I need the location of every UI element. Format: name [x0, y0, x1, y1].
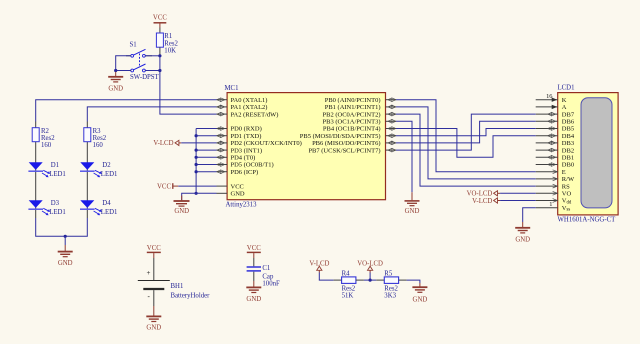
node: PD1 junction — [195, 134, 198, 137]
svg-text:MC1: MC1 — [225, 85, 239, 92]
wire: chain2 pins vertical — [86, 122, 88, 219]
pin Vdd — [536, 198, 572, 206]
resistor R3 — [84, 128, 107, 149]
led D4 — [80, 200, 117, 216]
pin DB5 — [536, 126, 574, 133]
svg-text:LED1: LED1 — [49, 171, 66, 178]
svg-text:3K3: 3K3 — [384, 292, 396, 299]
port V-LCD (to LCD Vdd) — [472, 198, 536, 205]
svg-text:Res2: Res2 — [164, 40, 178, 47]
pin C1.2 — [253, 272, 255, 281]
svg-text:PD0 (RXD): PD0 (RXD) — [231, 126, 262, 133]
pin DB1 — [536, 155, 574, 162]
svg-text:VCC: VCC — [157, 183, 171, 190]
wire: VCC port to MCU VCC pin — [178, 185, 216, 187]
mcu MC1 Attiny2313 — [225, 85, 386, 208]
svg-text:PB5 (MOSI/DI/SDA/PCINT5): PB5 (MOSI/DI/SDA/PCINT5) — [300, 133, 381, 140]
svg-text:DB5: DB5 — [562, 126, 574, 133]
wire: gnd bus vertical — [195, 129, 197, 194]
wire: PB1 to LCD R/W — [396, 107, 536, 179]
pin PB1 (AIN1/PCINT1) — [325, 104, 396, 111]
pin PB0 (AIN0/PCINT0) — [325, 97, 396, 104]
wire: S1 pole1 right to R1 bottom — [145, 55, 160, 57]
wire: PB4 to LCD DB4 — [396, 129, 536, 158]
pin PD5 (OC0B/T1) — [217, 162, 274, 169]
power VCC (top, feeds R1) — [153, 15, 167, 28]
ground (battery) — [146, 306, 161, 332]
svg-text:LED1: LED1 — [49, 209, 66, 216]
pin PD4 (T0) — [217, 155, 256, 162]
svg-text:PB1 (AIN1/PCINT1): PB1 (AIN1/PCINT1) — [325, 104, 381, 111]
svg-text:100nF: 100nF — [262, 281, 280, 288]
svg-text:16: 16 — [546, 93, 552, 100]
svg-text:GND: GND — [174, 208, 189, 215]
wire: PB2 to LCD RS — [396, 114, 536, 186]
svg-text:E: E — [562, 169, 566, 176]
wire: chain2 bottom — [65, 218, 87, 236]
wire: R4 to R5 — [364, 279, 376, 281]
wire: chain1 pins vertical — [35, 122, 37, 219]
wire: GND to MCU GND pin — [182, 193, 217, 200]
wire: chain1 to PA0 — [36, 100, 217, 122]
svg-text:BH1: BH1 — [171, 283, 184, 290]
pin PD2 (CKOUT/XCK/INT0) — [217, 140, 302, 147]
svg-text:BatteryHolder: BatteryHolder — [171, 292, 211, 299]
svg-text:DB3: DB3 — [562, 140, 574, 147]
svg-text:DB7: DB7 — [562, 111, 575, 118]
lcd glass area — [581, 98, 612, 208]
ground (left of MCU) — [174, 196, 190, 216]
wire: PD5 to gnd bus — [196, 164, 216, 166]
wire: PD1 to gnd bus — [196, 135, 216, 137]
led D2 — [80, 162, 117, 178]
node: PD4 junction — [195, 156, 198, 159]
led D1 — [28, 162, 65, 178]
resistor R5 — [384, 270, 398, 299]
wire: PB0 to LCD E — [396, 100, 536, 172]
pin K 16 — [536, 93, 567, 104]
svg-text:LED1: LED1 — [101, 209, 118, 216]
power VCC (C1) — [247, 245, 261, 258]
svg-text:WH1601A-NGG-CT: WH1601A-NGG-CT — [558, 216, 617, 223]
svg-text:VCC: VCC — [231, 183, 244, 190]
svg-text:PD5 (OC0B/T1): PD5 (OC0B/T1) — [231, 162, 274, 169]
switch S1 — [126, 42, 160, 81]
pin PB4 (OC1B/PCINT4) — [323, 126, 396, 133]
wire: S1 pole1 left to vertical — [116, 56, 131, 71]
svg-text:Res2: Res2 — [41, 135, 55, 142]
ground (below LCD) — [515, 222, 530, 243]
svg-text:S1: S1 — [130, 42, 137, 49]
pin C1.1 — [253, 258, 255, 266]
pin PD3 (INT1) — [217, 147, 263, 154]
svg-text:GND: GND — [515, 236, 530, 243]
svg-text:PD6 (ICP): PD6 (ICP) — [231, 169, 259, 176]
node: PD6 junction — [195, 170, 198, 173]
node: PD5 junction — [195, 163, 198, 166]
svg-text:LED1: LED1 — [101, 171, 118, 178]
battery BH1 — [138, 258, 210, 306]
power VCC (battery) — [147, 245, 161, 258]
svg-text:1: 1 — [549, 201, 552, 208]
svg-text:C1: C1 — [262, 265, 270, 272]
node: junction S1 left — [114, 69, 117, 72]
ground (divider) — [412, 283, 427, 303]
svg-text:PA2 (RESET/dW): PA2 (RESET/dW) — [231, 111, 279, 118]
pin PB6 (MISO/DO/PCINT6) — [312, 140, 396, 147]
svg-text:10K: 10K — [164, 48, 176, 55]
svg-text:PD3 (INT1): PD3 (INT1) — [231, 147, 263, 154]
ground (below PB3) — [405, 192, 420, 215]
wire: PD6 to gnd bus — [196, 171, 216, 173]
svg-text:D3: D3 — [51, 200, 60, 207]
wire: PD0 to gnd bus — [196, 128, 216, 130]
pin PB7 (UCSK/SCL/PCINT7) — [308, 147, 396, 154]
svg-text:VCC: VCC — [147, 245, 161, 252]
pin VO — [536, 191, 572, 198]
node: divider junction — [369, 279, 372, 282]
svg-text:GND: GND — [146, 325, 161, 332]
wire: reset net down to PA2 — [160, 56, 217, 114]
wire: PB5 to LCD DB5 — [396, 129, 536, 136]
svg-text:PB7 (UCSK/SCL/PCINT7): PB7 (UCSK/SCL/PCINT7) — [308, 147, 380, 154]
pin PD6 (ICP) — [217, 169, 259, 176]
svg-text:V-LCD: V-LCD — [472, 198, 492, 205]
wire: PB3 to GND — [396, 121, 412, 192]
node: junction S1 pole2 — [158, 69, 161, 72]
pin RS — [536, 183, 570, 190]
svg-text:PB2 (OC0A/PCINT2): PB2 (OC0A/PCINT2) — [323, 111, 381, 118]
svg-text:Attiny2313: Attiny2313 — [226, 202, 258, 209]
svg-text:DB6: DB6 — [562, 119, 575, 126]
svg-text:+: + — [147, 269, 151, 277]
svg-text:VCC: VCC — [247, 245, 261, 252]
pin PD1 (TXD) — [217, 133, 262, 140]
pin A — [536, 104, 567, 111]
led D3 — [28, 200, 65, 216]
pin DB6 — [536, 119, 575, 126]
node: GND wire junction — [195, 192, 198, 195]
svg-text:V-LCD: V-LCD — [153, 140, 173, 147]
wire: R5 to GND — [407, 280, 420, 283]
svg-text:PA0 (XTAL1): PA0 (XTAL1) — [231, 97, 268, 104]
wire: PD4 to gnd bus — [196, 156, 216, 158]
svg-text:DB2: DB2 — [562, 147, 574, 154]
svg-text:160: 160 — [93, 142, 104, 149]
node: LED gnd junction — [64, 235, 67, 238]
pin PB2 (OC0A/PCINT2) — [323, 111, 396, 118]
wire: PB6 to LCD DB6 — [396, 121, 536, 143]
svg-text:DB0: DB0 — [562, 162, 574, 169]
svg-text:PA1 (XTAL2): PA1 (XTAL2) — [231, 104, 268, 111]
svg-text:PB6 (MISO/DO/PCINT6): PB6 (MISO/DO/PCINT6) — [312, 140, 380, 147]
ground (C1) — [246, 281, 261, 303]
resistor R1 — [156, 33, 178, 55]
svg-text:A: A — [562, 104, 567, 111]
svg-text:Res2: Res2 — [93, 135, 107, 142]
pin PA0 (XTAL1) pin2 — [217, 97, 268, 104]
svg-text:PB3 (OC1A/PCINT3): PB3 (OC1A/PCINT3) — [323, 119, 381, 126]
node: junction R1/S1 — [158, 54, 161, 57]
wire: chain2 to PA1 — [87, 107, 216, 122]
svg-text:VO: VO — [562, 191, 572, 198]
svg-text:51K: 51K — [342, 292, 354, 299]
pin VCC — [217, 183, 244, 190]
port V-LCD (to PD2) — [153, 140, 216, 147]
port VO-LCD (divider tap) — [357, 260, 383, 280]
svg-text:GND: GND — [231, 191, 245, 198]
svg-text:GND: GND — [58, 260, 73, 267]
wire: chain1 bottom — [36, 218, 65, 236]
pin R4.1 — [334, 279, 342, 281]
svg-text:DB4: DB4 — [562, 133, 575, 140]
pin E — [536, 169, 566, 176]
pin DB2 — [536, 147, 574, 154]
svg-text:PD4 (T0): PD4 (T0) — [231, 155, 256, 162]
lcd LCD1 WH1601A-NGG-CT — [558, 85, 619, 224]
svg-text:GND: GND — [246, 296, 261, 303]
wire: PD3 to gnd bus — [196, 149, 216, 151]
ground (LED chains) — [58, 236, 73, 267]
resistor R2 — [32, 128, 55, 149]
svg-text:R/W: R/W — [562, 176, 575, 183]
node: PD3 junction — [195, 149, 198, 152]
ground (below S1) — [108, 72, 123, 93]
pin PA2 (RESET/dW) — [217, 111, 279, 118]
svg-text:PD2 (CKOUT/XCK/INT0): PD2 (CKOUT/XCK/INT0) — [231, 140, 302, 147]
svg-text:R5: R5 — [384, 270, 393, 277]
svg-text:VCC: VCC — [153, 15, 167, 22]
svg-text:SW-DPST: SW-DPST — [130, 74, 160, 81]
svg-text:PB4 (OC1B/PCINT4): PB4 (OC1B/PCINT4) — [323, 126, 381, 133]
svg-text:R4: R4 — [342, 270, 351, 277]
svg-text:GND: GND — [413, 296, 428, 303]
wire: S1 pole2 left to GND tap — [116, 71, 131, 72]
resistor R4 — [342, 270, 356, 299]
wire: PB7 to LCD DB7 — [396, 114, 536, 150]
svg-text:160: 160 — [41, 142, 52, 149]
pin Vss 1 — [536, 201, 571, 213]
port VO-LCD (to LCD VO) — [467, 191, 536, 198]
svg-text:D1: D1 — [51, 162, 59, 169]
pin R5.2 — [399, 279, 407, 281]
pin PB3 (OC1A/PCINT3) — [323, 119, 396, 126]
svg-text:DB1: DB1 — [562, 155, 574, 162]
svg-text:D4: D4 — [102, 200, 111, 207]
wire: S1 pole2 right to vertical — [145, 70, 160, 72]
svg-text:K: K — [562, 97, 567, 104]
pin DB4 — [536, 133, 575, 140]
pin R1.2 — [159, 47, 161, 56]
pin GND — [217, 191, 245, 198]
svg-text:GND: GND — [108, 86, 123, 93]
power VCC (MCU supply port) — [157, 183, 178, 190]
pin R1.1 — [159, 28, 161, 34]
svg-text:GND: GND — [405, 208, 420, 215]
pin R4.2 — [356, 279, 364, 281]
pin R/W — [536, 176, 575, 183]
pin R5.1 — [376, 279, 384, 281]
svg-text:LCD1: LCD1 — [558, 85, 575, 92]
svg-text:D2: D2 — [102, 162, 111, 169]
svg-text:R1: R1 — [164, 33, 172, 40]
pin DB0 — [536, 162, 574, 169]
pin PB5 (MOSI/DI/SDA/PCINT5) — [300, 133, 396, 140]
svg-text:PD1 (TXD): PD1 (TXD) — [231, 133, 262, 140]
pin PA1 (XTAL2) — [217, 104, 268, 111]
pin DB7 — [536, 111, 575, 118]
svg-text:RS: RS — [562, 183, 570, 190]
pin DB3 — [536, 140, 574, 147]
svg-text:Cap: Cap — [262, 273, 274, 280]
wire: Vss to GND — [523, 208, 536, 222]
pin PD0 (RXD) — [217, 126, 262, 133]
svg-text:VO-LCD: VO-LCD — [467, 191, 493, 198]
svg-text:PB0 (AIN0/PCINT0): PB0 (AIN0/PCINT0) — [325, 97, 381, 104]
capacitor C1 — [247, 265, 280, 288]
port V-LCD (divider input) — [309, 260, 333, 280]
